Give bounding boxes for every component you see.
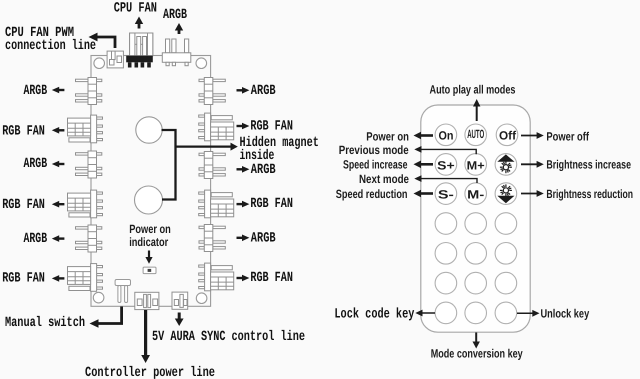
svg-text:Power on: Power on: [366, 129, 409, 143]
button brightness reduction: [495, 183, 517, 205]
connector ARGB left 2: [76, 151, 102, 178]
arrow left ARGB2: [52, 161, 65, 168]
LED power indicator component: [143, 267, 156, 274]
magnet circle 2: [135, 186, 163, 214]
arrow left FAN1: [52, 127, 65, 134]
arrow power on left: [414, 132, 434, 140]
blank button r7c3: [495, 302, 517, 324]
blank button r5c3: [495, 243, 517, 265]
connector CPU FAN (top, black base): [126, 33, 153, 68]
blank button r4c2: [465, 213, 487, 235]
button S+: [435, 154, 457, 176]
svg-text:RGB FAN: RGB FAN: [2, 197, 45, 213]
arrow brightness reduction right: [521, 190, 544, 197]
svg-text:Power on: Power on: [129, 222, 171, 236]
remote body: [421, 105, 530, 332]
svg-text:RGB FAN: RGB FAN: [250, 196, 293, 212]
arrow brightness increase right: [521, 161, 544, 168]
svg-text:On: On: [439, 129, 454, 143]
blank button r4c3: [495, 213, 517, 235]
svg-text:ARGB: ARGB: [251, 230, 276, 246]
wire hidden magnet to label: [162, 130, 233, 200]
svg-text:RGB FAN: RGB FAN: [250, 270, 293, 286]
connector ARGB right 2: [199, 152, 225, 179]
button M+: [465, 154, 487, 176]
arrow left FAN3: [52, 275, 65, 282]
arrow left FAN2: [52, 201, 65, 208]
connector RGB FAN right 1: [199, 113, 234, 141]
svg-text:Speed reduction: Speed reduction: [336, 187, 408, 201]
svg-text:RGB FAN: RGB FAN: [2, 123, 45, 139]
wire controller power down: [144, 310, 147, 357]
connector ARGB right 3: [199, 225, 225, 252]
blank button r4c1: [435, 213, 457, 235]
svg-text:Lock code key: Lock code key: [334, 306, 414, 322]
svg-text:Next mode: Next mode: [359, 172, 409, 186]
arrow right FAN1: [237, 123, 250, 130]
arrowhead hidden magnet: [231, 143, 238, 151]
svg-text:S+: S+: [437, 158, 455, 172]
svg-text:AUTO: AUTO: [467, 127, 484, 141]
blank button r7c2: [465, 302, 487, 324]
svg-text:Controller power line: Controller power line: [85, 365, 215, 379]
wire previous mode: [414, 146, 476, 154]
blank button r7c1: [435, 302, 457, 324]
button AUTO: [465, 124, 487, 146]
magnet circle 1: [136, 117, 162, 143]
connector RGB FAN left 3: [68, 264, 103, 292]
arrow right ARGB1: [237, 87, 250, 94]
connector 5V AURA SYNC (bottom): [172, 292, 188, 309]
svg-text:RGB FAN: RGB FAN: [2, 271, 45, 287]
arrow speed increase left: [414, 161, 434, 169]
mounting hole bottom-right: [196, 293, 207, 304]
button M-: [465, 183, 487, 205]
connector RGB FAN left 2: [68, 190, 103, 218]
svg-text:Brightness reduction: Brightness reduction: [546, 187, 633, 201]
arrow power on indicator down: [145, 251, 152, 264]
arrow right FAN3: [237, 275, 250, 282]
wire CPU FAN PWM label elbow: [93, 37, 115, 48]
mounting hole top-right: [196, 58, 207, 69]
arrow right ARGB3: [237, 235, 250, 242]
arrow CPU FAN up: [138, 22, 141, 29]
connector RGB FAN right 3: [199, 263, 234, 291]
svg-text:ARGB: ARGB: [163, 7, 187, 23]
connector ARGB top: [162, 39, 191, 66]
button On: [435, 124, 457, 146]
svg-text:5V AURA SYNC control line: 5V AURA SYNC control line: [152, 329, 305, 345]
connector ARGB left 1: [76, 78, 102, 105]
arrowhead manual switch: [90, 319, 99, 327]
svg-text:ARGB: ARGB: [251, 83, 276, 99]
svg-text:indicator: indicator: [129, 235, 168, 249]
manual switch component: [115, 280, 130, 303]
connector ARGB right 1: [199, 78, 225, 105]
connector CPU FAN PWM (top): [107, 51, 123, 68]
connector controller power (bottom): [135, 292, 159, 309]
svg-text:M+: M+: [467, 158, 485, 172]
arrow right ARGB2: [237, 166, 250, 173]
button Off: [496, 124, 518, 146]
mounting hole bottom-left: [93, 292, 104, 303]
svg-text:ARGB: ARGB: [251, 162, 276, 178]
arrow unlock key: [517, 310, 540, 317]
connector RGB FAN left 1: [68, 115, 103, 143]
blank button r6c2: [465, 272, 487, 294]
svg-text:M-: M-: [467, 188, 484, 202]
button brightness increase: [495, 154, 517, 176]
arrowhead CPU FAN PWM: [89, 33, 98, 42]
arrow right FAN2: [237, 201, 250, 208]
button S-: [435, 183, 457, 205]
arrow mode conversion down: [473, 333, 480, 349]
svg-text:S-: S-: [438, 188, 454, 202]
svg-text:ARGB: ARGB: [24, 156, 48, 172]
arrowhead controller power: [141, 355, 150, 363]
svg-text:ARGB: ARGB: [24, 231, 48, 247]
svg-text:Unlock key: Unlock key: [541, 306, 590, 320]
svg-text:ARGB: ARGB: [24, 83, 48, 99]
board outline: [91, 56, 211, 307]
blank button r5c1: [435, 243, 457, 265]
blank button r6c3: [495, 272, 517, 294]
svg-text:Power off: Power off: [546, 129, 589, 143]
svg-text:Auto play all modes: Auto play all modes: [430, 82, 516, 96]
connector RGB FAN right 2: [199, 190, 234, 218]
wire manual switch: [95, 307, 122, 324]
svg-text:Speed increase: Speed increase: [343, 158, 408, 172]
blank button r5c2: [465, 243, 487, 265]
connector ARGB left 3: [76, 225, 102, 252]
arrow left ARGB1: [52, 87, 65, 94]
arrow power off right: [521, 132, 544, 139]
arrow ARGB top up: [178, 28, 181, 34]
svg-text:Manual switch: Manual switch: [5, 315, 85, 331]
arrow auto play up: [473, 99, 480, 121]
arrow left ARGB3: [52, 235, 65, 242]
arrow speed reduction left: [414, 190, 434, 198]
svg-text:Previous mode: Previous mode: [339, 143, 409, 157]
svg-text:Mode conversion key: Mode conversion key: [431, 347, 523, 361]
svg-text:connection line: connection line: [5, 38, 96, 54]
arrow lock code key: [415, 310, 435, 317]
svg-text:Brightness increase: Brightness increase: [546, 158, 631, 172]
svg-text:Off: Off: [499, 129, 517, 143]
blank button r6c1: [435, 272, 457, 294]
svg-text:CPU FAN: CPU FAN: [114, 1, 157, 17]
wire next mode: [414, 175, 477, 183]
arrow 5V AURA down: [175, 313, 184, 327]
mounting hole top-left: [94, 58, 105, 69]
svg-text:RGB FAN: RGB FAN: [250, 118, 293, 134]
